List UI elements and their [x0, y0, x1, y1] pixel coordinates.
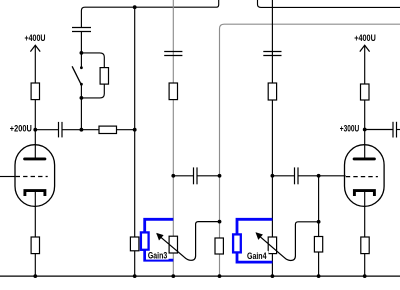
- resistor R1 (left anode dropper): [31, 83, 39, 100]
- wire: +400V rail (top left), from cap branch up and right, exits top edge: [81, 0, 218, 28]
- node: ground at column A: [33, 274, 37, 278]
- node: switch top contact: [80, 66, 83, 69]
- svg-text:+400U: +400U: [25, 33, 46, 43]
- resistor R7 (left cathode): [31, 237, 39, 254]
- potentiometer Gain3 highlighted wiring (bottom loop): [145, 250, 174, 261]
- wire: column G from top edge to ground rail: [271, 0, 273, 276]
- wire: right +400V feed / anode column: [364, 45, 366, 158]
- node: switch bottom contact: [80, 83, 83, 86]
- node: ground at column D: [133, 274, 137, 278]
- svg-text:+400U: +400U: [354, 33, 376, 43]
- tube V1 cathode bar with hooks: [25, 191, 45, 196]
- arrowhead of Gain4 wiper: [256, 233, 262, 240]
- wire: parallel resistor branch, top corner: [81, 53, 104, 68]
- resistor R8 (column D lower): [130, 237, 139, 251]
- node: row at column G: [271, 174, 275, 178]
- node: Gain4 wiper at column H: [317, 220, 321, 224]
- switch S1 blade (open): [72, 66, 81, 84]
- svg-text:Gain3: Gain3: [148, 251, 167, 261]
- resistor R9 (Gain3 pot track, column E): [169, 236, 177, 253]
- capacitor C5 (coupling E-F): [194, 167, 198, 184]
- node: row at column E: [171, 174, 175, 178]
- node: ground at column G: [271, 274, 275, 278]
- tube V2 envelope (right triode): [345, 145, 385, 207]
- resistor R5 (column G upper): [268, 83, 276, 100]
- node: row at column H: [317, 174, 321, 178]
- wire: left cathode column to ground rail: [34, 192, 36, 277]
- potentiometer Gain4 highlighted resistor body: [233, 234, 241, 252]
- capacitor C6 (coupling G-H): [295, 167, 299, 184]
- resistor R2 (parallel with switch): [100, 68, 108, 85]
- capacitor C1 (top of switch branch): [72, 28, 91, 32]
- svg-text:+200U: +200U: [10, 124, 32, 134]
- wire: left +400V feed / anode column: [34, 45, 36, 158]
- svg-text:+300U: +300U: [340, 124, 360, 134]
- node: row at column F: [218, 174, 222, 178]
- capacitor C4 (+200V coupling): [59, 122, 63, 137]
- potentiometer Gain4 highlighted wiring (top loop): [237, 219, 272, 234]
- node: +300V anode node: [363, 128, 367, 132]
- wire: switch branch upper segment: [80, 32, 82, 68]
- supply arrow +400V right: [360, 45, 370, 51]
- wire: +400V rail (top right), from top edge to right edge: [258, 0, 400, 7]
- potentiometer Gain3 highlighted resistor body: [141, 232, 149, 249]
- wire: right cathode column to ground rail: [364, 192, 366, 277]
- tube V2 grid (dashed): [346, 176, 378, 178]
- resistor R13 (column H lower): [314, 237, 322, 253]
- potentiometer Gain3 wiper arrow and return wire to node F: [157, 222, 220, 261]
- node: ground at column I: [363, 274, 367, 278]
- resistor R10 (column F lower): [215, 238, 223, 254]
- wire: left tube grid lead from left edge: [0, 176, 15, 178]
- tube V1 anode bar: [25, 157, 45, 160]
- label Gain4 background: [245, 251, 269, 260]
- wire: column E from top edge to ground rail: [172, 0, 174, 276]
- capacitor C2 (column E): [164, 52, 182, 56]
- supply arrow +400V left: [30, 45, 40, 51]
- tube V2 anode bar: [354, 157, 374, 160]
- wire: gray bus y=24 with corner down forming node-F column to bottom rail: [220, 24, 400, 276]
- tube V2 cathode bar with hooks: [354, 191, 374, 196]
- wire: ground rail across bottom: [0, 275, 400, 277]
- node: ground at column F: [218, 274, 222, 278]
- tube V1 grid (dashed): [16, 176, 48, 178]
- potentiometer Gain4 wiper arrow and return wire to node H: [256, 222, 318, 261]
- node: switch branch top junction: [80, 51, 84, 55]
- wire: coupling row E-F: [173, 175, 193, 177]
- label Gain3 background: [146, 251, 169, 260]
- resistor R3 (horizontal, +200V row): [99, 126, 117, 133]
- node: +200V anode node: [33, 128, 37, 132]
- node: switch branch bottom junction: [80, 96, 84, 100]
- potentiometer Gain3 highlighted wiring (top loop): [145, 219, 174, 233]
- node: ground at column E: [171, 274, 175, 278]
- svg-text:Gain4: Gain4: [247, 251, 267, 261]
- arrowhead of Gain3 wiper: [157, 233, 163, 240]
- potentiometer Gain4 highlighted wiring (bottom loop): [237, 252, 272, 262]
- wire: coupling row G-H and on to right tube grid: [272, 175, 294, 177]
- tube V1 envelope (left triode): [15, 145, 55, 207]
- resistor R6 (right anode dropper): [361, 84, 370, 100]
- wire: parallel resistor branch, bottom corner: [81, 84, 104, 98]
- wire: +300V row to right edge: [365, 129, 393, 131]
- resistor R4 (column E upper): [169, 83, 177, 100]
- wire: +200V row from tube anode node to column D: [35, 129, 58, 131]
- wire: column D from +400V rail to ground rail: [134, 7, 136, 276]
- node: Gain3 wiper at column F: [218, 220, 222, 224]
- capacitor C7 (+300V coupling): [393, 122, 397, 138]
- resistor R11 (right cathode): [361, 237, 369, 254]
- resistor R12 (Gain4 pot track, column G): [268, 237, 276, 254]
- node: column D on +400V rail: [133, 5, 137, 9]
- node: +200V at switch branch: [80, 128, 84, 132]
- node: ground at column H: [317, 274, 321, 278]
- capacitor C3 (column G): [263, 52, 281, 56]
- node: +200V at column D: [133, 128, 137, 132]
- wire: switch branch lower segment down to +200V node: [80, 84, 82, 130]
- wire: column H down to ground rail: [318, 176, 320, 276]
